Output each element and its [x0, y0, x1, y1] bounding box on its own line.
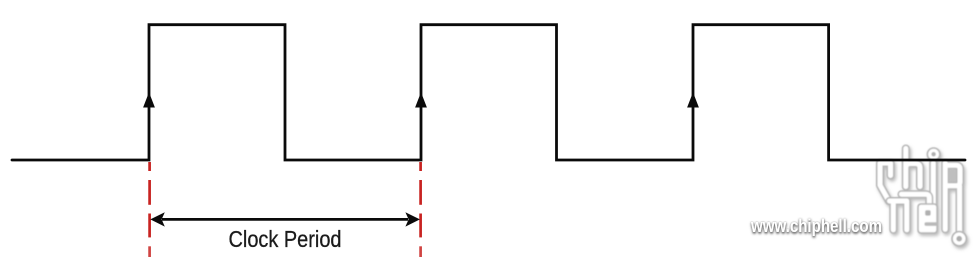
logo connector bar	[902, 194, 930, 203]
svg-text:Clock Period: Clock Period	[229, 226, 342, 252]
clock period dimension arrow	[150, 212, 420, 226]
rising edge arrow 1	[143, 92, 155, 107]
logo letter e (hell)	[917, 203, 938, 234]
red dashed marker line 2	[419, 162, 422, 257]
logo bottom donut (hell !)	[951, 231, 967, 247]
logo i stem joining e (chip/hell)	[929, 163, 937, 206]
rising edge arrow 2	[415, 92, 427, 107]
www.chiphell.com watermark	[750, 215, 882, 236]
svg-text:www.chiphell.com: www.chiphell.com	[750, 215, 882, 236]
clock waveform trace	[12, 25, 965, 160]
logo letter p (chip) with descender l	[945, 163, 960, 231]
logo i dot (chip)	[927, 147, 941, 161]
Clock Period label	[229, 226, 342, 252]
logo letter h (chip)	[906, 149, 920, 187]
chiphell logo watermark	[880, 147, 967, 247]
rising edge arrow 3	[687, 92, 699, 107]
red dashed marker line 1	[148, 162, 151, 257]
logo letter c (chip) spiral with tail to hell-h	[880, 163, 891, 201]
logo letter h (hell)	[890, 201, 907, 230]
